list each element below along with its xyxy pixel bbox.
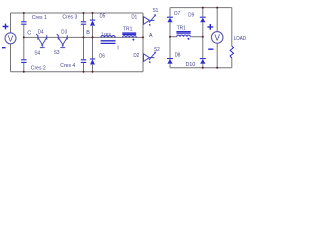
voltage source V1 circle	[5, 33, 16, 44]
junction dot bottom rail at Cres4	[83, 71, 85, 73]
wire D7/D8 leg	[169, 8, 171, 68]
switch S2 with diode D2 (bottom of leg)	[144, 52, 156, 62]
svg-text:A: A	[149, 33, 153, 39]
svg-text:S4: S4	[34, 50, 40, 56]
wire middle node line C-B-A	[24, 36, 143, 38]
svg-text:V: V	[8, 35, 14, 44]
switch S3 with diode D3 on middle line	[57, 34, 68, 48]
minus sign of source V1	[2, 47, 6, 49]
svg-text:TR1: TR1	[177, 26, 186, 32]
svg-text:S3: S3	[54, 50, 60, 56]
svg-text:D1: D1	[131, 15, 137, 21]
junction dot rectifier top at D9 leg	[202, 7, 204, 9]
capacitor Cres1	[21, 22, 26, 24]
transformer TR1 secondary core bar	[176, 32, 190, 33]
wire load resistor leg	[231, 8, 233, 68]
transformer TR1 secondary winding	[177, 35, 191, 37]
switch S4 with diode D4 on middle line	[36, 34, 47, 48]
junction dot rectifier top at voltmeter	[216, 7, 218, 9]
wire voltmeter leg	[216, 8, 218, 68]
diode D10	[186, 59, 206, 69]
wire D6 leg	[92, 37, 94, 71]
transformer TR1 secondary polarity dot	[188, 38, 190, 40]
svg-text:D3: D3	[61, 29, 67, 35]
svg-text:D9: D9	[188, 13, 194, 19]
load resistor zigzag	[230, 46, 233, 58]
transformer TR1 primary core bar	[122, 33, 136, 34]
wire Cres1 leg	[23, 13, 25, 37]
svg-text:D2: D2	[133, 53, 139, 59]
junction dot bottom rail at Cres2	[23, 71, 25, 73]
switch S1 with diode D1 (top of leg)	[144, 15, 156, 25]
svg-text:LOAD: LOAD	[234, 36, 246, 42]
junction dot top rail at D5	[92, 12, 94, 14]
diode D6	[90, 53, 105, 64]
junction dot node B at D5	[92, 36, 94, 38]
diode D8	[167, 52, 180, 63]
wire D9/D10 leg	[202, 8, 204, 68]
svg-text:Lres: Lres	[102, 32, 111, 38]
wire right rectifier top rail	[170, 7, 232, 9]
capacitor Cres3	[81, 22, 86, 24]
transformer TR1 primary polarity dot	[132, 39, 134, 41]
junction dot node B at Cres3	[83, 36, 85, 38]
svg-text:V: V	[215, 34, 221, 43]
junction dot secondary right	[202, 36, 204, 38]
wire Cres2 leg	[23, 37, 25, 71]
svg-text:C: C	[27, 31, 31, 37]
svg-text:I: I	[117, 45, 119, 51]
diode D9	[188, 13, 206, 23]
voltmeter V circle	[211, 32, 223, 44]
svg-text:Cres 1: Cres 1	[32, 15, 47, 21]
wire top rail (left section)	[11, 12, 144, 14]
svg-text:D7: D7	[174, 11, 180, 17]
transformer TR1 primary winding	[123, 36, 137, 38]
wire Cres4 leg	[83, 37, 85, 71]
wire S1/S2 leg vertical	[142, 13, 144, 72]
svg-text:D4: D4	[38, 29, 44, 35]
junction dot top rail at Cres1	[23, 12, 25, 14]
svg-text:S1: S1	[153, 8, 159, 14]
plus sign of voltmeter	[207, 24, 213, 30]
capacitor Cres4	[81, 60, 86, 63]
inductor Lres	[101, 36, 115, 38]
svg-text:TR1: TR1	[123, 27, 132, 33]
wire Cres3 leg	[83, 13, 85, 37]
svg-text:Cres 3: Cres 3	[62, 14, 77, 20]
wire left source leg lower	[10, 44, 12, 72]
svg-text:D8: D8	[175, 52, 181, 58]
capacitor Cres2	[21, 60, 26, 63]
junction dot bottom rail at D6	[92, 71, 94, 73]
wire D5 leg	[92, 13, 94, 37]
svg-text:D6: D6	[99, 53, 105, 59]
junction dot node A	[142, 36, 144, 38]
svg-text:Cres 4: Cres 4	[60, 63, 76, 69]
svg-text:D10: D10	[186, 62, 196, 68]
diode D7	[167, 11, 180, 22]
svg-text:D5: D5	[100, 14, 106, 20]
svg-text:Cres 2: Cres 2	[31, 66, 46, 72]
minus sign of voltmeter	[208, 48, 213, 50]
junction dot rectifier bottom at voltmeter	[216, 67, 218, 69]
diode D5	[90, 14, 106, 26]
wire right rectifier bottom rail	[170, 67, 232, 69]
wire secondary node line	[170, 36, 203, 38]
plus sign of source V1	[3, 24, 9, 30]
junction dot node C	[23, 36, 25, 38]
wire bottom rail (left section)	[11, 71, 144, 73]
inductor Lres core bars	[101, 41, 116, 44]
junction dot secondary left	[169, 36, 171, 38]
junction dot rectifier bottom at D10 leg	[202, 67, 204, 69]
svg-text:S2: S2	[154, 47, 160, 53]
wire left source leg upper	[10, 13, 12, 33]
svg-text:B: B	[86, 30, 90, 36]
junction dot top rail at Cres3	[83, 12, 85, 14]
